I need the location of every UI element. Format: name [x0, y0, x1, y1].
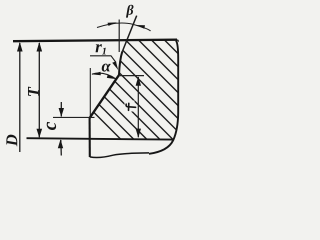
c dimension upper arrow: [60, 102, 62, 117]
alpha arc right arrowhead: [107, 75, 116, 80]
beta dimension arc: [97, 23, 151, 31]
f dimension line with arrows: [137, 77, 139, 137]
c upper extension line: [53, 116, 95, 118]
dimension T line with arrows: [38, 43, 40, 137]
beta arc left arrowhead: [108, 22, 118, 26]
alpha arc left arrowhead: [91, 72, 101, 76]
beta arc right arrowhead: [136, 25, 146, 29]
c label (rotated): [47, 122, 56, 130]
beta facet / extension slant line: [122, 16, 136, 52]
top surface line: [13, 40, 177, 42]
left edge extension line (thin, alpha reference): [89, 68, 91, 118]
T label (rotated): [28, 87, 39, 96]
r1 leader line: [90, 56, 116, 63]
chamfer line: [90, 75, 119, 118]
alpha dimension arc: [92, 73, 116, 79]
alpha label: [102, 64, 111, 72]
r1 leader arrowhead: [112, 61, 118, 70]
beta vertical reference line: [118, 20, 120, 53]
dimension D extension line with up arrow: [19, 43, 21, 152]
bottom break line (wavy): [90, 153, 149, 158]
left edge of part (thick): [89, 118, 91, 158]
right edge of part: [149, 41, 178, 154]
r1 label: [96, 44, 102, 52]
D label (rotated): [6, 135, 17, 147]
hatching of section: [2, 20, 278, 140]
c dimension lower arrow: [60, 140, 63, 156]
f extension line (horizontal, from vertex): [120, 75, 145, 77]
f label (rotated, drawn): [126, 103, 136, 110]
label clearing patch: [125, 101, 135, 112]
beta label: [126, 5, 134, 18]
bottom face line: [27, 138, 174, 139]
land curve (vertex up to beta facet): [119, 52, 122, 75]
